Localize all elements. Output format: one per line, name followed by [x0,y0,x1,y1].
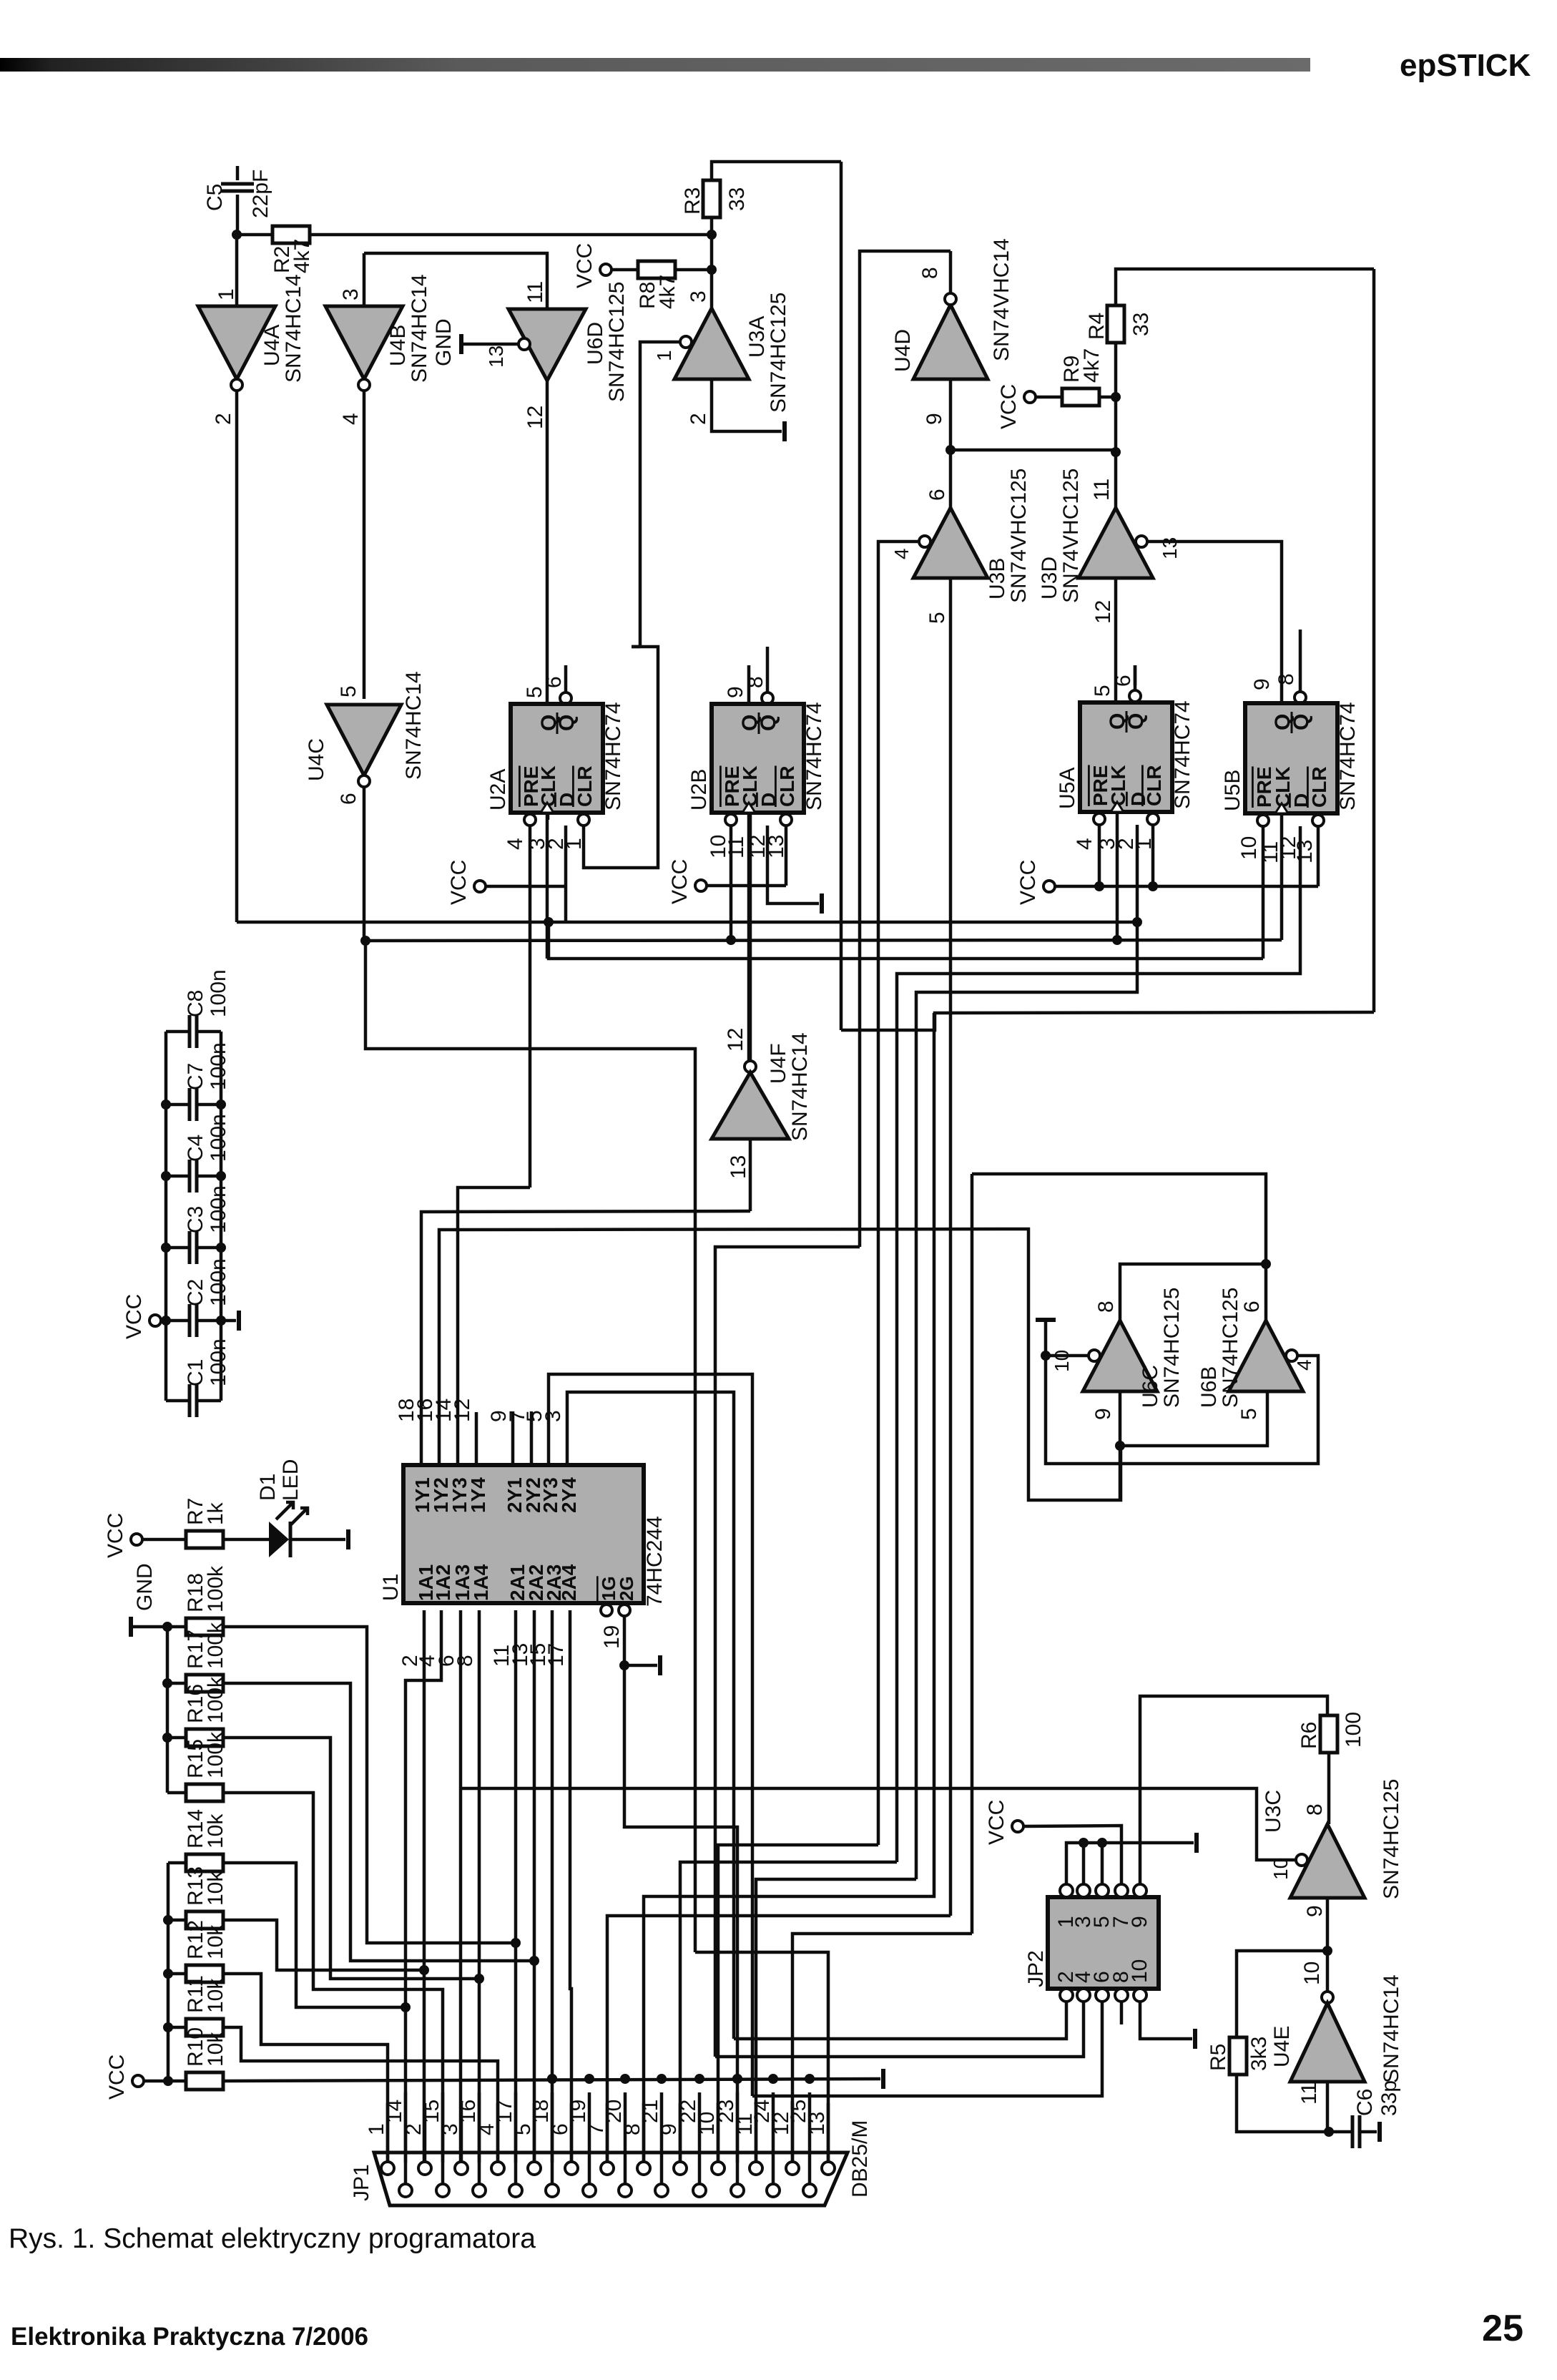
enable bubble U6C pin10 [1089,1350,1100,1361]
svg-text:9: 9 [1091,1408,1115,1420]
capacitor C7 100n [166,1103,190,1107]
wire node to R5 bottom [1237,2075,1329,2132]
VCC feed U2B [695,880,707,891]
svg-text:3k3: 3k3 [1247,2037,1271,2071]
wire U3B enable net to pin10 [718,1845,878,2163]
svg-text:SN74HC125: SN74HC125 [1380,1779,1403,1899]
wire U5B pin8 stub [1299,630,1302,692]
wire U2B pin12 D to ground [767,826,819,903]
svg-text:18: 18 [529,2100,553,2123]
U5A pin4 bubble [1094,813,1105,825]
svg-text:U3A: U3A [745,316,769,358]
wire U5A pin3 CLK [1116,812,1119,940]
svg-text:1: 1 [365,2123,388,2135]
svg-text:SN74HC74: SN74HC74 [1171,700,1194,809]
VCC feed U5A [1043,881,1055,892]
svg-text:C3: C3 [184,1206,207,1233]
wire 2Y1 stub [511,1411,515,1464]
svg-text:15: 15 [420,2100,443,2123]
svg-text:20: 20 [602,2100,626,2123]
wire GND to pin23 [624,1665,737,2163]
svg-text:VCC: VCC [985,1800,1008,1845]
svg-text:Elektronika Praktyczna 7/2006: Elektronika Praktyczna 7/2006 [11,2323,368,2351]
svg-text:33: 33 [1129,313,1153,336]
svg-text:R4: R4 [1085,313,1109,340]
wire U2A pin2 D [564,826,568,922]
wire JP2 pin5 stub [1101,1843,1104,1884]
bus jog R3R4 loop [841,1012,1374,1030]
U2B pin8 bubble [762,692,773,704]
svg-text:DB25/M: DB25/M [848,2120,872,2198]
enable bubble U3D pin13 [1136,536,1147,547]
svg-text:epSTICK: epSTICK [1400,48,1531,83]
svg-text:10: 10 [1051,1350,1073,1372]
JP1 pin 1 [381,2162,394,2175]
wire U5B pin9 stub [1280,647,1284,703]
svg-text:10k: 10k [204,1871,227,1906]
bus wire 1Y3 to U2A PRE [458,1187,530,1464]
wire JP2 pin3 stub [1082,1843,1086,1884]
svg-text:17: 17 [544,1643,568,1667]
svg-text:11: 11 [1090,479,1114,501]
svg-text:10: 10 [1128,1959,1151,1983]
svg-text:CLR: CLR [1143,765,1165,806]
svg-text:2Y4: 2Y4 [558,1477,580,1513]
U2A pin4 bubble [524,814,536,826]
svg-text:JP1: JP1 [350,2164,373,2201]
wire JP2 pin10 to ground [1140,2002,1192,2039]
wire U2B pin8 stub [766,645,770,649]
wire R3 top loop [712,162,841,180]
resistor R17 100k [167,1682,186,1685]
resistor R11 10k [168,2026,186,2029]
svg-text:GND: GND [432,318,456,366]
wire R18 to pin17 [223,1627,516,1943]
wire R12 to pin1 [223,1974,388,2163]
svg-text:2: 2 [687,413,710,425]
svg-text:9: 9 [1250,678,1274,690]
svg-text:9: 9 [1303,1905,1327,1917]
svg-text:10: 10 [1237,836,1261,860]
JP1 pin 18 [546,2184,559,2197]
ground capacitor ladder [221,1319,236,1323]
svg-text:6: 6 [542,676,566,688]
JP1 pin 24 [767,2184,780,2197]
resistor R9 [1036,396,1062,399]
enable bubble U6B pin4 [1286,1350,1297,1361]
inverter U4A SN74HC14 [235,235,239,306]
svg-text:SN74HC74: SN74HC74 [802,702,826,811]
ground [129,1617,133,1637]
resistor R12 10k [168,1972,186,1976]
resistor R16 100k [167,1736,186,1740]
wire 1Y4 stub [475,1412,478,1464]
JP1 pin 15 [436,2184,449,2197]
svg-text:1: 1 [653,350,675,361]
svg-text:4k7: 4k7 [1080,348,1104,383]
long vertical R4 loop right side [1372,269,1376,1012]
wire U5B pin11 CLK [1280,813,1284,940]
cross wire U4D out to node B [951,449,1116,452]
wire U2A pin3 CLK [546,813,549,959]
wire U2B pin10 PRE [730,826,733,940]
svg-text:100n: 100n [207,1042,230,1090]
svg-text:C8: C8 [184,990,207,1017]
wire U5B D net to pin9 [680,1862,897,2163]
long vertical R3 loop [840,162,843,1030]
wire U3B out net to pin7 [607,1916,951,2163]
JP1 pin 17 [509,2184,522,2197]
wire JP2 pin4 [715,2002,1084,2057]
enable bubble U3B pin4 [919,536,930,547]
svg-text:Rys. 1. Schemat elektryczny: Rys. 1. Schemat elektryczny programatora [9,2223,536,2254]
svg-text:4: 4 [890,548,913,559]
svg-text:SN74HC125: SN74HC125 [767,293,790,413]
resistor R7 1k [142,1538,186,1542]
JP1 pin 6 [565,2162,578,2175]
resistor R13 10k [168,1919,186,1922]
svg-text:8: 8 [1303,1803,1327,1816]
svg-text:8: 8 [1274,673,1298,685]
svg-text:SN74HC14: SN74HC14 [788,1032,812,1141]
svg-text:100n: 100n [207,1338,230,1386]
svg-text:13: 13 [1293,840,1317,863]
wire 1A3 to pin3 [459,1610,463,2163]
bus wire U4B net [365,940,1282,941]
ground [1193,2029,1197,2049]
svg-text:19: 19 [600,1625,624,1649]
JP1 pin 25 [803,2184,816,2197]
svg-text:24: 24 [750,2100,774,2123]
svg-text:C2: C2 [184,1279,207,1306]
JP1 pin 4 [491,2162,504,2175]
wire U3C in to U4E out [1326,1898,1330,1992]
wire R15 to pin15 [223,1793,443,2163]
wire VCC to U2B CLR [707,884,786,888]
svg-text:6: 6 [1240,1301,1264,1313]
U5B pin8 bubble [1295,692,1306,703]
svg-text:10k: 10k [204,1978,227,2013]
connector JP2 [1048,1897,1159,1989]
inverter U4B SN74HC14 [363,253,366,306]
ladder rail 100k [166,1627,170,1793]
svg-text:100: 100 [1342,1712,1365,1748]
wire U3D enable [1147,542,1282,647]
VCC feed capacitor ladder [149,1315,161,1326]
wire U5A pin2 D [916,825,1137,1879]
jog U4D net to lower column [715,1247,860,2057]
bus wire 1Y1 to U4F [421,1211,750,1464]
wire U3B output pin5 long column [949,578,953,1916]
wire U6C out to U6B in [1119,1391,1122,1446]
svg-text:100n: 100n [207,1185,230,1233]
svg-text:SN74HC74: SN74HC74 [601,702,625,811]
wire R10 ground bus [223,2079,880,2081]
svg-text:U3B: U3B [986,558,1009,599]
svg-text:6: 6 [1111,675,1135,687]
svg-text:R3: R3 [681,187,704,215]
ground [881,2069,885,2089]
enable bubble U6D pin13 [519,338,530,350]
svg-text:SN74HC74: SN74HC74 [1336,702,1360,811]
capacitor C6 33p [1329,2130,1352,2134]
wire U4D output down [949,379,953,450]
svg-text:2G: 2G [616,1576,637,1601]
JP1 pin 9 [674,2162,687,2175]
inverter U4F SN74HC14 [745,1061,756,1072]
wire R4 top loop [1116,269,1374,305]
svg-text:19: 19 [566,2100,590,2123]
VCC rail to U5 presets [1055,885,1318,888]
svg-text:C7: C7 [184,1063,207,1090]
svg-text:U2A: U2A [486,769,510,811]
wire U5B pin12 D [897,826,1300,1862]
wire U4F pin13 [749,1139,752,1211]
wire R4 bottom [1114,343,1118,397]
resistor R18 100k [167,1625,186,1629]
svg-text:16: 16 [456,2100,480,2123]
svg-text:8: 8 [453,1655,477,1667]
svg-text:25: 25 [1482,2308,1523,2349]
svg-text:U2B: U2B [687,769,711,811]
LED D1 [223,1538,269,1542]
wire U4E in node [1326,2082,1330,2132]
VCC feed R9 [1024,391,1036,403]
wire U6 feed net to pin12 [792,1934,972,2163]
inverter U4E SN74HC14 [1322,1992,1333,2003]
svg-text:2: 2 [212,413,235,425]
flip-flop U2B SN74HC74 [747,665,751,704]
JP1 pin 8 [637,2162,650,2175]
buffer U1 74HC244 [403,1465,644,1603]
svg-text:VCC: VCC [668,859,692,904]
svg-text:SN74HC14: SN74HC14 [402,671,426,780]
JP1 pin 19 [583,2184,596,2197]
VCC feed R8 [600,264,611,275]
column from 1641 line [971,1174,974,1934]
svg-text:4: 4 [1073,838,1096,850]
svg-text:GND: GND [133,1563,157,1611]
wire JP2 pin9 to R6 node [1140,1696,1327,1884]
JP1 pin 21 [655,2184,668,2197]
JP1 pin 14 [399,2184,412,2197]
svg-text:5: 5 [1237,1408,1261,1420]
ground [1036,1318,1056,1322]
svg-text:11: 11 [524,281,547,303]
svg-text:U5B: U5B [1221,770,1244,811]
svg-text:5: 5 [925,612,949,624]
svg-text:CLK: CLK [1107,765,1129,806]
wire U4C output [363,787,366,941]
svg-text:CLR: CLR [1308,766,1330,808]
wire U6C-9 net jog [1119,1446,1122,1500]
svg-text:12: 12 [451,1399,474,1422]
svg-text:C4: C4 [184,1135,207,1162]
svg-text:8: 8 [918,267,942,279]
svg-text:17: 17 [493,2100,516,2123]
wire 2A3 to pin18 [551,1610,554,2163]
svg-text:1: 1 [215,288,238,300]
svg-text:13: 13 [1159,537,1181,559]
svg-text:SN74HC14: SN74HC14 [408,274,431,383]
wire U5B pin10 PRE [1262,826,1265,959]
wire U6 tops [1120,1264,1266,1321]
svg-text:U4F: U4F [767,1043,790,1084]
svg-text:U3C: U3C [1262,1790,1285,1833]
wire U3A enable pin1 [640,342,680,647]
svg-text:U5A: U5A [1056,768,1079,809]
bus wire U4A net [237,921,1137,924]
svg-text:Q: Q [1124,713,1148,730]
wire U2B pin11 CLK to U4F [747,813,751,1061]
wire U5A D net to pin11 [756,1879,916,2163]
JP1 pin 11 [750,2162,762,2175]
JP1 pin 22 [693,2184,706,2197]
resistor R5 3k3 [1229,2037,1247,2075]
enable bubble U3A pin1 [680,336,692,348]
JP1 pin 3 [455,2162,468,2175]
wire U3B enable to long column [878,542,919,1845]
U2B pin10 bubble [725,814,737,826]
wire U3C enable loop [461,1788,1296,1860]
svg-text:10k: 10k [204,2032,227,2067]
svg-text:D1: D1 [256,1474,280,1501]
wire node to R5 top [1237,1951,1327,2037]
svg-text:33: 33 [725,187,749,211]
capacitor C3 100n [166,1246,190,1250]
U1 pin1G bubble [601,1605,612,1616]
svg-text:R5: R5 [1207,2044,1230,2071]
VCC feed R10 [132,2075,144,2087]
svg-text:VCC: VCC [447,860,471,905]
wire node B to U3D [1114,452,1118,508]
wire JP2 pin8 stub [1120,2002,1124,2024]
capacitor C4 100n [166,1175,190,1178]
wire U2A CLK jog to bus [549,922,1263,959]
enable bubble U3C pin10 [1296,1854,1307,1866]
wire 1A4 to pin16 [478,1610,481,2163]
wire U4B net to pin13 [695,1952,828,2163]
wire U5A pin6 stub [1134,665,1137,685]
resistor R2 [237,233,272,237]
svg-text:10k: 10k [204,1813,227,1848]
wire U4B net down [365,941,695,1952]
svg-text:13: 13 [485,346,507,368]
svg-text:8: 8 [1094,1301,1118,1313]
U5B pin13 bubble [1312,815,1324,826]
svg-text:VCC: VCC [104,1513,127,1558]
svg-text:SN74HC14: SN74HC14 [282,274,305,383]
JP1 pin 7 [601,2162,614,2175]
node C5/R2 [232,230,242,240]
svg-text:SN74HC14: SN74HC14 [1380,1974,1403,2083]
svg-text:VCC: VCC [122,1294,146,1339]
JP1 pin 10 [712,2162,725,2175]
svg-text:22pF: 22pF [249,170,272,218]
svg-text:11: 11 [1297,2082,1321,2105]
long column U3B enable net [877,540,880,544]
ground [782,421,787,441]
svg-text:C5: C5 [203,184,227,211]
wire R16 to pin16 [223,1738,479,1979]
wire JP2 pin6 [752,2002,1102,2096]
capacitor C2 100n [166,1319,190,1323]
JP1 pin 23 [731,2184,744,2197]
svg-text:100n: 100n [207,1114,230,1162]
svg-text:74HC244: 74HC244 [643,1516,667,1607]
JP1 pin 13 [822,2162,835,2175]
U5A pin6 bubble [1129,690,1141,702]
wire R13 to pin2 net [223,1920,424,1970]
wire node to U3A [710,235,714,308]
svg-text:VCC: VCC [1016,860,1040,905]
ground [1377,2122,1382,2142]
svg-text:U6D: U6D [584,322,607,365]
svg-text:12: 12 [524,406,547,429]
svg-text:1A4: 1A4 [470,1564,492,1601]
svg-text:SN74HC125: SN74HC125 [1219,1288,1242,1408]
JP1 pin 12 [786,2162,799,2175]
wire U4B output to U4C [363,391,366,699]
ground [459,334,463,354]
svg-text:5: 5 [337,685,360,697]
wire U5A pin1 CLR [1151,825,1155,886]
wire R14 to pin14 net [223,1863,406,2007]
svg-text:U4B: U4B [386,325,410,366]
ground [820,893,824,914]
svg-text:U3D: U3D [1038,557,1061,599]
svg-text:12: 12 [1091,600,1115,624]
svg-text:8: 8 [744,676,767,688]
wire U3D output to U5A pin5 [1114,578,1118,702]
wire R3R4 net column to pin8 [644,1013,934,2163]
ladder rail 10k [167,1863,170,2081]
svg-text:JP2: JP2 [1024,1950,1048,1987]
svg-text:U6B: U6B [1197,1366,1221,1408]
ground [1194,1833,1199,1853]
wire 2Y2 stub [530,1411,534,1464]
wire 1A1 to pin2 [423,1610,426,2163]
U5B pin10 bubble [1257,815,1269,826]
buffer U3C SN74HC125 [1290,1824,1365,1898]
svg-text:SN74HC125: SN74HC125 [1160,1288,1184,1408]
resistor R8 [611,268,638,272]
svg-text:21: 21 [639,2100,662,2123]
wire VCC to JP2 pin7 [1023,1826,1121,1884]
wire U4D pin8 loop [860,251,951,1247]
svg-text:100k: 100k [204,1565,227,1612]
connector JP1 DB25/M outline [374,2153,848,2205]
wire U3A pin2 to ground bar [712,379,782,431]
ground [346,1529,350,1549]
wire LED to ground [290,1538,345,1542]
U2A pin1 bubble [578,814,589,826]
U2B pin13 bubble [780,814,792,826]
svg-text:4k7: 4k7 [290,239,314,273]
svg-text:C6: C6 [1353,2089,1377,2116]
wire 2A4 jog to pin6 [570,1610,571,2163]
resistor R4 [1107,305,1124,343]
capacitor ladder rails [164,1032,168,1401]
resistor R14 10k [168,1861,186,1865]
svg-text:25: 25 [787,2100,810,2123]
svg-text:11: 11 [725,836,748,858]
svg-text:Q: Q [555,715,579,731]
wire R6 to U3C [1327,1753,1331,1824]
svg-text:C1: C1 [184,1359,207,1386]
wire 2Y3 loop to U3C enable [549,1374,752,2096]
svg-text:4: 4 [339,413,363,425]
